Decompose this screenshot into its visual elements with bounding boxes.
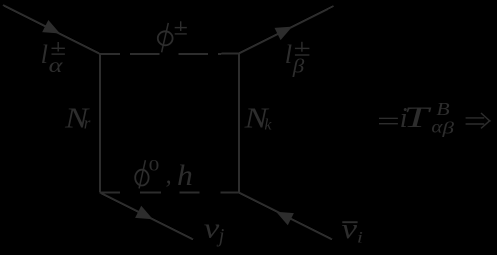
- label nu_i-bar: [342, 214, 363, 247]
- svg-text:i: i: [357, 230, 363, 247]
- svg-text:l: l: [285, 39, 292, 69]
- svg-text:α: α: [49, 55, 63, 77]
- svg-text:k: k: [264, 116, 272, 133]
- heavy neutrino propagator N_k (right vertical): [238, 54, 240, 193]
- equation = iT^B_ab: [379, 99, 455, 138]
- label l_alpha^pm: [41, 39, 65, 77]
- arrow on l_beta line: [275, 27, 293, 40]
- label phi0, h: [135, 158, 193, 192]
- label phi^pm: [158, 21, 187, 52]
- heavy neutrino propagator N_r (left vertical): [99, 54, 101, 193]
- svg-text:β: β: [292, 56, 306, 78]
- arrow on l_alpha line: [42, 20, 60, 34]
- arrow on nu_i-bar line: [276, 212, 294, 226]
- scalar propagator phi+- (top dashed line): [100, 53, 239, 56]
- scalar propagator phi0,h (bottom dashed line): [100, 192, 239, 194]
- neutrino line nu_j: [100, 193, 193, 240]
- arrow on nu_j line: [135, 206, 153, 220]
- incoming lepton line l_alpha: [3, 5, 100, 54]
- label nu_j: [204, 213, 225, 247]
- svg-text:h: h: [177, 159, 193, 192]
- svg-text:l: l: [41, 39, 48, 69]
- svg-text:,: ,: [166, 163, 172, 189]
- antineutrino line nu_i-bar: [239, 193, 332, 240]
- label N_r: [64, 104, 91, 135]
- svg-text:ν: ν: [204, 213, 220, 244]
- svg-text:β: β: [441, 119, 455, 138]
- svg-text:r: r: [84, 113, 91, 132]
- implies double arrow: [466, 113, 491, 128]
- label N_k: [243, 104, 272, 135]
- svg-text:0: 0: [149, 158, 160, 175]
- label l_beta^pm: [285, 39, 310, 78]
- outgoing lepton line l_beta: [239, 6, 334, 54]
- svg-text:T: T: [404, 101, 432, 134]
- svg-text:α: α: [431, 116, 443, 136]
- svg-text:ν: ν: [342, 214, 358, 245]
